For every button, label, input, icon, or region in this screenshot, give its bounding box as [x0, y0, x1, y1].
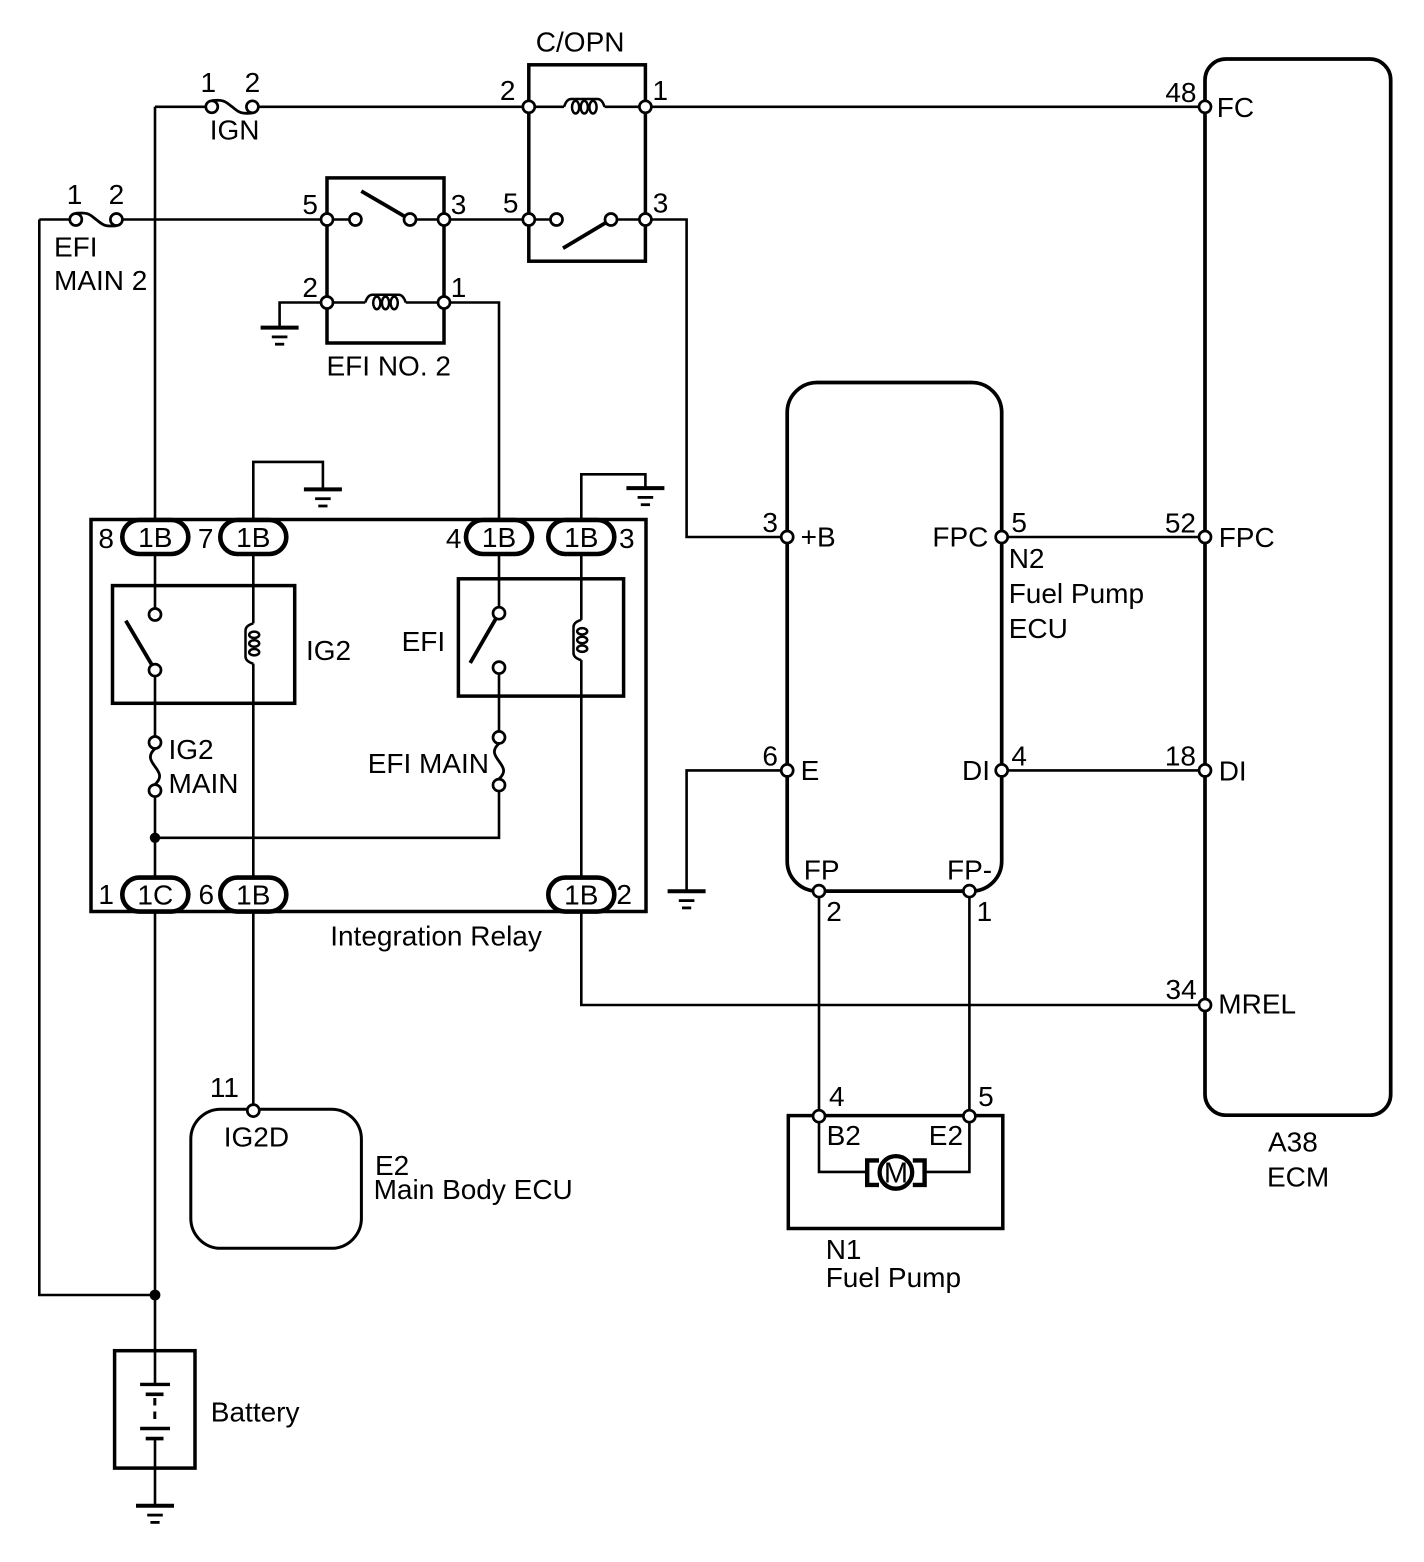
- svg-text:FC: FC: [1217, 92, 1254, 123]
- svg-text:1B: 1B: [138, 522, 172, 553]
- wire: EFI NO. 2 coil row: [327, 301, 365, 304]
- junction: IG2 MAIN / EFI MAIN node: [150, 833, 160, 843]
- label battery: [211, 1397, 300, 1428]
- pin number integration relay 8: [98, 523, 114, 554]
- pin name ECM DI: [1219, 755, 1247, 786]
- wire: Fuel Pump ECU pin 5 FPC to ECM pin 52 FPC: [1002, 536, 1205, 539]
- label fuel pump designator: [826, 1234, 862, 1265]
- svg-text:IG2D: IG2D: [224, 1122, 289, 1153]
- pin number ECM 18: [1165, 741, 1196, 772]
- pin number fuel pump 4: [829, 1081, 845, 1112]
- pin number N2 2: [826, 896, 842, 927]
- svg-text:EFI MAIN: EFI MAIN: [368, 748, 489, 779]
- pin C/OPN 3: [639, 214, 651, 226]
- integration relay box: [91, 520, 646, 912]
- svg-text:A38: A38: [1268, 1127, 1318, 1158]
- wire: EFI relay coil top lead: [580, 537, 583, 620]
- svg-text:1: 1: [451, 272, 467, 303]
- svg-text:N1: N1: [826, 1234, 862, 1265]
- pin number EFI NO. 2 2: [302, 272, 318, 303]
- label N2 name line 2: [1009, 613, 1068, 644]
- pin name ECM FPC: [1219, 522, 1275, 553]
- wire: Fuel Pump ECU pin FP down to fuel pump pin 4 B2 and motor: [819, 891, 866, 1172]
- pin fuel pump 5 E2: [963, 1110, 975, 1122]
- pin number integration relay 2: [616, 879, 632, 910]
- svg-text:6: 6: [199, 879, 215, 910]
- svg-text:3: 3: [619, 523, 635, 554]
- svg-text:MAIN: MAIN: [169, 768, 239, 799]
- svg-text:Main Body ECU: Main Body ECU: [374, 1174, 573, 1205]
- pin name fuel pump B2: [827, 1120, 861, 1151]
- pin number C/OPN 3: [653, 188, 669, 219]
- pin C/OPN 1: [639, 101, 651, 113]
- svg-text:IG2: IG2: [169, 734, 214, 765]
- pin number fuel pump 5: [978, 1081, 994, 1112]
- svg-text:MREL: MREL: [1218, 989, 1296, 1020]
- pin number integration relay 6: [199, 879, 215, 910]
- svg-text:6: 6: [762, 741, 778, 772]
- svg-text:ECU: ECU: [1009, 613, 1068, 644]
- label N2 name line 1: [1009, 578, 1144, 609]
- svg-text:B2: B2: [827, 1120, 861, 1151]
- relay C/OPN box: [529, 65, 646, 261]
- label fuse IG2 MAIN line 1: [169, 734, 214, 765]
- pin name N2 FP-: [947, 855, 992, 886]
- battery box: [115, 1351, 195, 1468]
- fuse EFI MAIN: [493, 731, 505, 791]
- svg-text:5: 5: [1011, 507, 1027, 538]
- svg-text:E2: E2: [929, 1120, 963, 1151]
- svg-text:M: M: [884, 1158, 908, 1190]
- pin number EFI NO. 2 3: [451, 189, 467, 220]
- wire: EFI NO. 2 coil pin 2 to ground: [280, 303, 327, 330]
- label fuse EFI MAIN: [368, 748, 489, 779]
- svg-text:FPC: FPC: [1219, 522, 1275, 553]
- svg-text:FP-: FP-: [947, 855, 992, 886]
- label fuse IG2 MAIN line 2: [169, 768, 239, 799]
- connector 1B pin 7: [220, 520, 286, 554]
- svg-text:1B: 1B: [564, 522, 598, 553]
- ground at fuel pump ECU pin E: [668, 891, 706, 908]
- wire: EFI switch bottom contact to EFI MAIN fuse: [498, 668, 501, 738]
- pin EFI NO. 2 5: [321, 214, 333, 226]
- relay EFI box: [458, 579, 623, 696]
- connector 1B pin 6: [220, 878, 286, 912]
- wire: IG2 coil bottom lead down to Main Body ECU pin 11 IG2D: [252, 664, 255, 1111]
- pin number C/OPN 1: [653, 75, 669, 106]
- svg-text:DI: DI: [962, 755, 990, 786]
- connector 1B pin 2: [548, 878, 614, 912]
- wire: Fuel Pump ECU pin 6 E to ground: [687, 770, 788, 893]
- svg-text:Fuel Pump: Fuel Pump: [1009, 578, 1144, 609]
- main body ECU E2 box: [191, 1109, 362, 1248]
- relay IG2 switch: [126, 609, 161, 677]
- wire: integration relay pin 7 to ground: [253, 462, 323, 537]
- svg-text:2: 2: [109, 179, 125, 210]
- svg-text:1: 1: [977, 896, 993, 927]
- svg-text:DI: DI: [1219, 755, 1247, 786]
- pin number N2 1: [977, 896, 993, 927]
- svg-text:EFI NO. 2: EFI NO. 2: [327, 351, 451, 382]
- pin number EFI MAIN 2 1: [67, 179, 83, 210]
- svg-text:2: 2: [616, 879, 632, 910]
- fuse EFI MAIN 2: [70, 213, 123, 226]
- pin number N2 3: [762, 507, 778, 538]
- label fuse EFI MAIN 2 line 1: [54, 232, 98, 263]
- pin N2 FP-: [963, 885, 975, 897]
- pin name fuel pump E2: [929, 1120, 963, 1151]
- pin name ECM FC: [1217, 92, 1254, 123]
- pin N2 FP: [813, 885, 825, 897]
- pin number N2 5: [1011, 507, 1027, 538]
- svg-text:1: 1: [98, 879, 114, 910]
- pin number ECM 34: [1166, 974, 1197, 1005]
- pin name N2 FP: [804, 855, 840, 886]
- svg-text:FPC: FPC: [932, 522, 988, 553]
- pin number EFI NO. 2 5: [302, 189, 318, 220]
- svg-text:1B: 1B: [482, 522, 516, 553]
- svg-text:2: 2: [245, 67, 261, 98]
- label N2 designator: [1009, 543, 1045, 574]
- fuel pump motor M circle: [880, 1156, 913, 1190]
- svg-text:MAIN 2: MAIN 2: [54, 265, 147, 296]
- junction: battery positive node: [150, 1290, 161, 1301]
- svg-text:N2: N2: [1009, 543, 1045, 574]
- svg-text:5: 5: [978, 1081, 994, 1112]
- svg-text:Integration Relay: Integration Relay: [330, 921, 542, 952]
- ground at integration relay pin 3: [626, 488, 664, 505]
- wire: C/OPN pin 3 down to Fuel Pump ECU pin 3 +B: [611, 220, 787, 538]
- svg-text:IGN: IGN: [210, 115, 260, 146]
- label fuel pump name: [826, 1262, 961, 1293]
- svg-text:48: 48: [1165, 77, 1196, 108]
- ECM A38 box: [1205, 59, 1391, 1115]
- pin name N2 +B: [801, 522, 836, 553]
- wire: EFI NO. 2 pin 1 down to integration relay pin 4: [406, 303, 499, 538]
- pin number ECM 48: [1165, 77, 1196, 108]
- svg-text:IG2: IG2: [306, 635, 351, 666]
- pin number EFI NO. 2 1: [451, 272, 467, 303]
- pin number EFI MAIN 2 2: [109, 179, 125, 210]
- svg-text:ECM: ECM: [1267, 1162, 1329, 1193]
- label fuse IGN: [210, 115, 260, 146]
- label relay C/OPN: [536, 27, 625, 58]
- svg-text:4: 4: [829, 1081, 845, 1112]
- connector 1B pin 4: [466, 520, 532, 554]
- battery symbol plates: [140, 1384, 170, 1438]
- wire: left vertical from EFI MAIN 2 pin 1 to battery junction: [39, 220, 155, 1296]
- label relay EFI: [402, 626, 446, 657]
- svg-text:11: 11: [210, 1072, 239, 1103]
- svg-text:2: 2: [500, 75, 516, 106]
- label relay EFI NO. 2: [327, 351, 451, 382]
- pin name E2 IG2D: [224, 1122, 289, 1153]
- pin name ECM MREL: [1218, 989, 1296, 1020]
- pin ECM 52 FPC: [1199, 531, 1211, 543]
- label E2 name: [374, 1174, 573, 1205]
- label relay IG2: [306, 635, 351, 666]
- svg-text:8: 8: [98, 523, 114, 554]
- svg-text:7: 7: [198, 523, 214, 554]
- pin ECM 18 DI: [1199, 764, 1211, 776]
- svg-text:2: 2: [826, 896, 842, 927]
- pin number integration relay 4: [446, 523, 462, 554]
- pin number IGN 1: [201, 67, 217, 98]
- fuel pump ECU N2 box: [787, 383, 1002, 892]
- svg-text:1: 1: [653, 75, 669, 106]
- svg-text:1C: 1C: [137, 880, 173, 911]
- svg-text:E: E: [801, 755, 820, 786]
- svg-text:18: 18: [1165, 741, 1196, 772]
- pin ECM 34 MREL: [1199, 999, 1211, 1011]
- svg-text:C/OPN: C/OPN: [536, 27, 625, 58]
- svg-text:3: 3: [451, 189, 467, 220]
- ground at integration relay pin 7: [304, 489, 342, 506]
- ground below battery: [136, 1506, 174, 1523]
- pin EFI NO. 2 2: [321, 297, 333, 309]
- wire: IG2 coil top lead: [252, 537, 255, 623]
- pin E2 11 IG2D: [247, 1105, 259, 1117]
- wire: main battery feed vertical (IGN corner down to battery positive plate): [154, 107, 157, 1385]
- pin C/OPN 2: [523, 101, 535, 113]
- pin number C/OPN 5: [503, 188, 519, 219]
- svg-text:EFI: EFI: [54, 232, 98, 263]
- pin number N2 4: [1011, 741, 1027, 772]
- relay EFI NO. 2 switch: [349, 191, 416, 225]
- svg-text:5: 5: [503, 188, 519, 219]
- wire: EFI relay coil bottom lead through pin 2 to ECM pin 34 MREL: [581, 660, 1205, 1005]
- pin fuel pump 4 B2: [813, 1110, 825, 1122]
- svg-text:1: 1: [201, 67, 217, 98]
- svg-text:1B: 1B: [236, 880, 270, 911]
- svg-text:1B: 1B: [564, 880, 598, 911]
- label ECM designator: [1268, 1127, 1318, 1158]
- wire: battery negative stem to ground: [154, 1439, 157, 1506]
- relay EFI NO. 2 coil: [365, 295, 405, 310]
- wire: IGN fuse row to C/OPN coil and ECM pin 48 FC: [155, 106, 1205, 109]
- pin N2 +B: [781, 531, 793, 543]
- svg-text:1B: 1B: [236, 522, 270, 553]
- label ECM name: [1267, 1162, 1329, 1193]
- pin N2 FPC: [996, 531, 1008, 543]
- pin N2 E: [781, 764, 793, 776]
- svg-text:EFI: EFI: [402, 626, 446, 657]
- pin number IGN 2: [245, 67, 261, 98]
- pin number integration relay 7: [198, 523, 214, 554]
- relay EFI coil: [574, 620, 588, 660]
- svg-text:34: 34: [1166, 974, 1197, 1005]
- wire: integration relay pin 3 to ground: [581, 474, 645, 537]
- relay C/OPN switch: [551, 214, 618, 249]
- svg-text:Battery: Battery: [211, 1397, 300, 1428]
- ground at EFI NO. 2 coil: [261, 328, 299, 345]
- pin ECM 48 FC: [1199, 101, 1211, 113]
- wire: EFI NO. 2 pin 3 to C/OPN pin 5: [410, 218, 556, 221]
- wire: EFI MAIN 2 row to EFI NO. 2 relay pin 5: [39, 218, 355, 221]
- connector 1B pin 8: [122, 520, 188, 554]
- wire: Fuel Pump ECU pin 4 DI to ECM pin 18 DI: [1002, 769, 1205, 772]
- wire: integration relay pin 4 to EFI switch top contact: [498, 537, 501, 613]
- relay EFI switch: [470, 607, 505, 673]
- pin number integration relay 1: [98, 879, 114, 910]
- svg-text:4: 4: [446, 523, 462, 554]
- svg-text:2: 2: [302, 272, 318, 303]
- label fuse EFI MAIN 2 line 2: [54, 265, 147, 296]
- fuse IG2 MAIN: [149, 737, 161, 797]
- pin number E2 11: [210, 1072, 239, 1103]
- svg-text:3: 3: [653, 188, 669, 219]
- relay IG2 coil: [246, 623, 260, 663]
- connector 1C pin 1: [122, 878, 188, 912]
- svg-text:3: 3: [762, 507, 778, 538]
- relay C/OPN coil: [564, 99, 604, 113]
- svg-text:+B: +B: [801, 522, 836, 553]
- svg-text:Fuel Pump: Fuel Pump: [826, 1262, 961, 1293]
- pin name N2 E: [801, 755, 820, 786]
- fuse IGN: [206, 100, 259, 113]
- pin name N2 FPC: [932, 522, 988, 553]
- pin N2 DI: [996, 764, 1008, 776]
- svg-text:1: 1: [67, 179, 83, 210]
- pin name N2 DI: [962, 755, 990, 786]
- pin number N2 6: [762, 741, 778, 772]
- svg-text:5: 5: [302, 189, 318, 220]
- fuel pump N1 box: [788, 1116, 1003, 1229]
- pin number C/OPN 2: [500, 75, 516, 106]
- svg-text:52: 52: [1165, 508, 1196, 539]
- relay IG2 box: [113, 586, 295, 704]
- relay EFI NO. 2 box: [327, 178, 444, 343]
- wire: EFI MAIN fuse to junction at IG2 MAIN output: [155, 785, 499, 838]
- pin C/OPN 5: [523, 214, 535, 226]
- wire: Fuel Pump ECU pin FP- down to fuel pump pin 5 E2 and motor: [924, 891, 969, 1172]
- svg-text:FP: FP: [804, 855, 840, 886]
- fuel pump motor M1 brushes: [867, 1160, 924, 1185]
- pin number integration relay 3: [619, 523, 635, 554]
- label integration relay: [330, 921, 542, 952]
- connector 1B pin 3: [548, 520, 614, 554]
- pin number ECM 52: [1165, 508, 1196, 539]
- label E2 designator: [375, 1150, 409, 1181]
- svg-text:4: 4: [1011, 741, 1027, 772]
- pin EFI NO. 2 1: [438, 297, 450, 309]
- pin EFI NO. 2 3: [438, 214, 450, 226]
